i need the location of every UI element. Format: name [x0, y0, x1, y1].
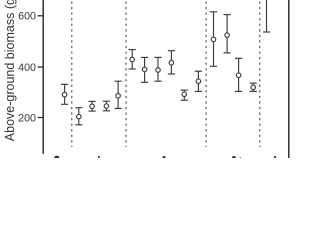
- data points: [61, 0, 270, 125]
- y-axis tick at 200: [38, 117, 44, 119]
- cut-off x label fragment panel 5: [274, 156, 277, 162]
- point P3-3 circle: [156, 68, 161, 73]
- cut-off x label fragment panel 3: [162, 156, 165, 162]
- point P3-5 error bar: [181, 90, 188, 100]
- cut-off x label fragment panel 4b: [240, 157, 241, 158]
- point P2-3 error bar: [103, 101, 110, 111]
- point P4-4 circle: [251, 85, 256, 90]
- point P4-3 error bar: [235, 58, 242, 91]
- point P4-3 circle: [236, 73, 241, 78]
- dashed separator line 3: [205, 0, 207, 147]
- svg-text:200: 200: [18, 112, 36, 124]
- dashed separator line 2: [125, 0, 127, 147]
- point P4-1 error bar: [210, 12, 217, 67]
- dashed separator line 4: [259, 0, 261, 147]
- y-axis line: [42, 0, 44, 154]
- point P3-4 error bar: [168, 51, 175, 74]
- point P4-2 error bar: [224, 15, 231, 53]
- point P4-2 circle: [225, 33, 230, 38]
- point P3-6 error bar: [195, 71, 202, 91]
- svg-text:600: 600: [18, 11, 36, 23]
- cut-off x label fragment panel 1: [54, 156, 60, 162]
- point P3-1 circle: [130, 57, 135, 62]
- point P3-3 error bar: [154, 57, 161, 81]
- point P2-1 error bar: [75, 108, 82, 125]
- point P1 circle: [62, 92, 67, 97]
- point P2-3 circle: [104, 104, 109, 109]
- dashed separator line 1: [71, 0, 73, 147]
- point P2-4 error bar: [115, 81, 122, 108]
- point P2-1 circle: [77, 114, 82, 119]
- y-axis tick at 600: [38, 15, 44, 17]
- point P3-6 circle: [196, 79, 201, 84]
- point P3-5 circle: [182, 92, 187, 97]
- point P3-1 error bar: [129, 50, 136, 69]
- point P4-1 circle: [211, 37, 216, 42]
- point P3-2 circle: [142, 67, 147, 72]
- cut-off x label fragment panel 4: [232, 156, 236, 162]
- point P1 error bar: [61, 84, 68, 104]
- point P3-4 circle: [169, 60, 174, 64]
- point P2-2 circle: [90, 104, 95, 109]
- point P4-4 error bar: [250, 83, 257, 91]
- point P2-4 circle: [116, 94, 121, 99]
- svg-text:400: 400: [18, 62, 36, 74]
- svg-text:Above-ground biomass (g m: Above-ground biomass (g m: [3, 0, 17, 141]
- point P5-1 error bar (circle above crop): [263, 0, 270, 32]
- point P3-2 error bar: [141, 57, 148, 82]
- right border line (cropped adjacent axis): [288, 0, 290, 158]
- point P2-2 error bar: [89, 101, 96, 111]
- y-axis tick at 400: [38, 66, 44, 68]
- cut-off x label fragment panel 2: [98, 156, 100, 159]
